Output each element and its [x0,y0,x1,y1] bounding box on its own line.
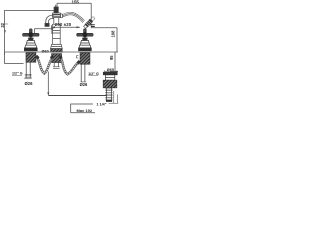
svg-text:Ø65: Ø65 [107,68,114,72]
svg-text:Ø26: Ø26 [80,82,88,87]
svg-text:Ø26: Ø26 [25,81,34,86]
svg-text:155: 155 [72,0,80,5]
svg-text:95: 95 [109,55,114,60]
svg-text:1/2" G: 1/2" G [12,72,23,76]
svg-text:32: 32 [0,22,5,27]
svg-text:1 1/4": 1 1/4" [97,102,107,106]
svg-text:250 ±20: 250 ±20 [55,22,72,27]
svg-text:1/2" G: 1/2" G [88,72,99,76]
svg-text:108: 108 [111,30,116,38]
svg-text:Max 192: Max 192 [77,108,93,113]
svg-text:Ø60: Ø60 [42,49,49,53]
